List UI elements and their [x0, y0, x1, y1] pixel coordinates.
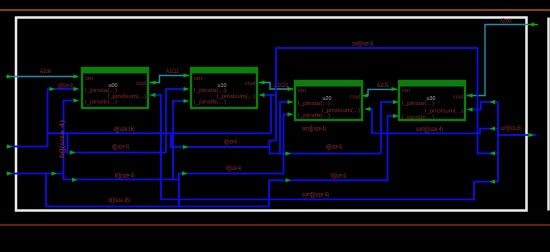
svg-text:b[](size 4): b[](size 4)	[115, 174, 135, 180]
top frame line	[0, 9, 550, 11]
wire cin A1cin	[6, 76, 78, 78]
svg-text:sum[](size 4): sum[](size 4)	[302, 127, 326, 133]
svg-text:a[](size 16): a[](size 16)	[114, 127, 135, 133]
wire b4a line	[64, 101, 189, 180]
svg-text:A1cin: A1cin	[40, 69, 51, 75]
sheet border	[16, 18, 527, 211]
pin arrow u10 cout	[259, 80, 265, 84]
svg-text:sum[](size 4): sum[](size 4)	[302, 193, 329, 199]
svg-text:l_pinslb(...): l_pinslb(...)	[85, 100, 117, 106]
wire carry c11	[150, 76, 189, 83]
wire b4 line right	[269, 116, 399, 207]
wire a4 tap mid	[171, 95, 381, 154]
bottom frame line	[0, 224, 550, 226]
wire u20 a feed	[280, 102, 293, 154]
module u00	[82, 68, 148, 108]
pin arrow u20 sum	[365, 107, 371, 111]
svg-text:l_pinslsum(...): l_pinslsum(...)	[322, 108, 360, 114]
tap arrow a4 u10	[70, 150, 76, 154]
pin arrow u30 sum	[467, 107, 473, 111]
svg-text:l_pinslsum(...): l_pinslsum(...)	[425, 109, 463, 115]
pin arrow u10 cin	[184, 73, 190, 77]
svg-text:cin: cin	[298, 88, 306, 94]
pin arrow u20 a	[288, 100, 294, 104]
svg-text:cin: cin	[194, 76, 202, 82]
tap arrow a u00	[50, 87, 56, 91]
svg-text:a[](size 4): a[](size 4)	[112, 145, 129, 151]
svg-text:cin: cin	[85, 76, 93, 82]
pin arrow u30 cout	[467, 93, 473, 97]
wire A2cout	[467, 25, 527, 96]
pin arrow u20 cin	[288, 87, 294, 91]
pin arrow u00 cin	[74, 74, 80, 78]
svg-text:sum[](size 4): sum[](size 4)	[416, 127, 443, 133]
wire a16 bus	[48, 95, 272, 133]
svg-text:l_pinslb(...): l_pinslb(...)	[194, 100, 226, 106]
svg-text:cout: cout	[136, 81, 147, 87]
tap arrow a4 mid2	[286, 151, 292, 155]
svg-text:cout: cout	[350, 95, 361, 101]
tap arrow b4a u10	[72, 178, 78, 182]
pin arrow u30 cin	[392, 87, 398, 91]
svg-text:b[](size 4): b[](size 4)	[331, 174, 346, 180]
pin arrow u10 b	[184, 99, 190, 103]
bus arrow sum u20	[490, 127, 496, 131]
svg-text:a[](size 4): a[](size 4)	[326, 145, 342, 151]
svg-text:b[](size 4): b[](size 4)	[60, 120, 66, 158]
wire b input	[6, 101, 79, 174]
port arrow A2cout	[527, 24, 539, 26]
module u20	[295, 81, 362, 120]
bus arrow sum u00	[490, 180, 496, 184]
svg-text:a[](size 4): a[](size 4)	[224, 140, 237, 146]
bus arrow sum u10	[490, 151, 496, 155]
pin arrow u10 sum	[259, 93, 265, 97]
port arrow sum16 out	[529, 133, 535, 137]
pin arrow u00 b	[74, 98, 80, 102]
svg-text:a[](size 4): a[](size 4)	[58, 84, 73, 90]
wire sum16 output	[498, 129, 537, 135]
pin arrow u20 cout	[362, 94, 368, 98]
svg-text:l_pinslsum(...): l_pinslsum(...)	[217, 94, 255, 100]
module u10	[191, 68, 257, 108]
wire u20 sum	[365, 109, 498, 133]
svg-text:sum[](size 4): sum[](size 4)	[352, 42, 373, 48]
svg-text:u10: u10	[218, 83, 227, 89]
pin arrow u30 b	[393, 114, 399, 118]
wire sum collection bus	[497, 102, 499, 182]
svg-text:u20: u20	[323, 96, 332, 102]
svg-text:u30: u30	[427, 96, 436, 102]
svg-text:l_pinslb(...): l_pinslb(...)	[402, 115, 434, 121]
pin arrow u00 sum	[150, 93, 156, 97]
svg-text:cout: cout	[245, 81, 256, 87]
svg-text:A2cout: A2cout	[500, 19, 512, 25]
port arrow cin	[7, 74, 13, 78]
pin arrow u30 a	[393, 100, 399, 104]
wire u10 sum	[259, 48, 498, 153]
module u30	[399, 81, 465, 121]
wire a4 tap to u10	[68, 89, 189, 153]
tap arrow b in	[52, 171, 58, 175]
wire a input	[6, 89, 79, 147]
wire u30 sum	[467, 102, 498, 110]
pin arrow u00 a	[74, 87, 80, 91]
wire u30 a feed	[381, 102, 399, 154]
wire b4 line mid	[179, 114, 293, 206]
wire carry c31	[362, 89, 397, 95]
svg-text:u00: u00	[109, 83, 118, 89]
tap arrow b4 mid2	[286, 178, 292, 182]
pin arrow u10 a	[184, 87, 190, 91]
svg-text:cout: cout	[453, 95, 464, 101]
tap arrow a4 mid	[183, 145, 189, 149]
svg-text:A1c31: A1c31	[377, 83, 389, 89]
bus arrow sum u30	[490, 100, 496, 104]
wire u00 sum	[150, 95, 498, 199]
wire carry c21	[259, 83, 293, 90]
svg-text:cin: cin	[402, 88, 410, 94]
svg-text:sum[](size 16): sum[](size 16)	[501, 126, 522, 132]
pin arrow u00 cout	[150, 80, 156, 84]
port arrow b	[7, 171, 13, 175]
svg-text:b[](size 16): b[](size 16)	[109, 198, 130, 204]
svg-text:b[](size 4): b[](size 4)	[226, 166, 241, 172]
pin arrow u20 b	[288, 112, 294, 116]
port arrow a	[7, 144, 13, 148]
right extra border line	[547, 18, 550, 211]
svg-text:A1c11: A1c11	[166, 69, 179, 75]
tap arrow b4 mid	[182, 171, 188, 175]
svg-text:l_pinslsum(...): l_pinslsum(...)	[108, 94, 146, 100]
wire b16 bus	[46, 174, 269, 207]
